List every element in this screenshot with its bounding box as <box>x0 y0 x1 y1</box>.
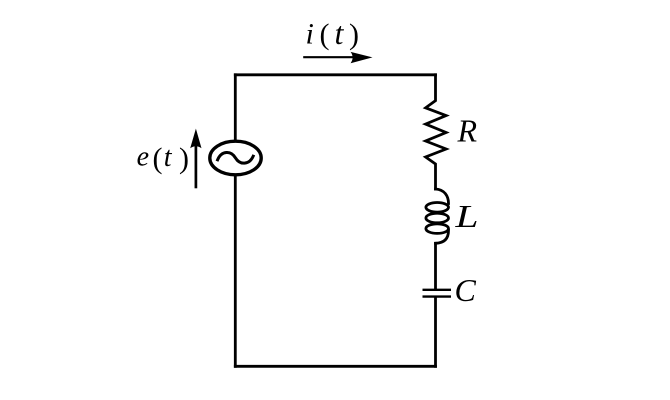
svg-text:): ) <box>179 142 189 175</box>
svg-text:e: e <box>137 142 149 173</box>
svg-text:i: i <box>306 17 314 50</box>
svg-text:): ) <box>349 18 359 51</box>
svg-text:t: t <box>335 15 345 51</box>
svg-text:R: R <box>457 112 478 148</box>
svg-text:t: t <box>164 142 173 173</box>
svg-text:C: C <box>455 272 477 308</box>
svg-text:L: L <box>454 198 478 234</box>
svg-text:(: ( <box>320 18 330 51</box>
svg-text:(: ( <box>153 142 163 175</box>
